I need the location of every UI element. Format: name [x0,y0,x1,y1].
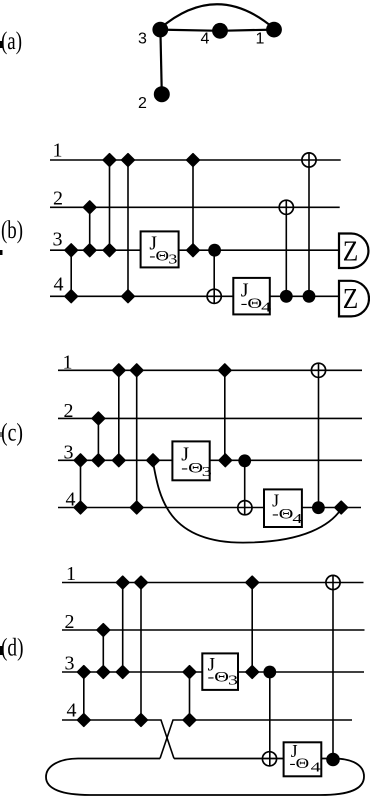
gate box J-theta3 d [202,653,238,690]
svg-text:1: 1 [66,563,76,585]
gate box J-theta4 b [233,278,269,315]
svg-text:3: 3 [168,253,177,268]
wire vertical c w1-w3 [118,370,120,460]
gate box J-theta4 d [284,742,322,776]
svg-text:-Θ: -Θ [241,296,263,312]
control dot b w3 [208,244,221,257]
diamond b w4 a [65,290,78,303]
wire vertical b w1-w4 cnot [308,153,310,297]
wire d1 [62,582,364,584]
svg-text:(b): (b) [1,217,23,244]
diamond b w3 a [65,244,78,257]
svg-text:2: 2 [64,400,74,422]
diamond c w4 a [74,501,87,514]
measurement Z b w4 [339,281,369,317]
wire vertical d w1-w3 third [251,583,253,673]
diamond b w4 b [122,290,135,303]
diamond d w1 c [246,576,259,589]
diamond c w1 a [113,364,126,377]
svg-text:Z: Z [343,283,359,315]
loopback stadium d [46,759,364,796]
control dot d loop [326,753,340,767]
svg-text:-Θ: -Θ [272,507,294,523]
svg-text:4: 4 [67,699,77,721]
diamond c w3 a [74,454,87,467]
wire c2 [58,417,362,419]
svg-text:4: 4 [261,301,271,316]
diamond d w3 e [246,666,259,679]
svg-text:-Θ: -Θ [149,249,169,265]
wire vertical d w1-w3 [122,583,124,673]
diamond b w3 b [83,244,96,257]
diamond d w3 b [97,666,110,679]
wire vertical b w1-w3 [109,160,111,250]
control dot d w3 [263,666,276,679]
gate box J-theta3 c [172,441,209,480]
wire c1 [58,369,362,371]
graph edge 4-1 [220,30,274,31]
svg-text:-Θ: -Θ [208,669,230,685]
diamond c w3 d loopstart [147,454,160,467]
wire vertical d w1-w4 [140,583,142,721]
diamond c w1 c [219,364,232,377]
edge artifact mark c [0,432,2,437]
svg-text:(c): (c) [1,420,23,447]
diamond c w3 e [219,454,232,467]
svg-text:2: 2 [65,611,75,633]
wire vertical b w2-w3 [89,207,91,250]
wire vertical b w1-w3 second [192,160,194,250]
svg-text:4: 4 [201,30,210,47]
wire c3 [58,459,362,461]
svg-text:2: 2 [138,95,147,112]
svg-text:1: 1 [53,139,63,161]
edge artifact mark a [0,41,3,48]
wire vertical b w3-w4 cnot [213,250,215,303]
wire d4 left [62,720,174,759]
wire vertical d w3-w4 [83,672,85,720]
svg-text:1: 1 [63,352,73,374]
cnot target b w4 [207,289,221,303]
cnot target d w1 [326,575,340,589]
diamond d w3 c [116,666,129,679]
wire b1 [50,159,341,161]
wire vertical c w3-w4 [80,460,82,507]
svg-text:3: 3 [202,465,212,480]
diamond c w1 b [130,364,143,377]
diamond b w1 a [103,154,116,167]
diamond d w3 a [78,666,91,679]
wire d3 [62,671,364,673]
cnot target b w2 [279,200,293,214]
edge artifact mark d [0,646,3,655]
svg-text:1: 1 [256,30,265,47]
graph node 4 [212,23,228,39]
control dot b w4 b [303,290,316,303]
svg-text:4: 4 [311,761,321,776]
diamond c w2 [92,412,105,425]
graph node 1 [266,22,282,38]
wire vertical d w2-w3 [102,630,104,672]
svg-text:3: 3 [53,229,63,251]
diamond d w1 b [135,576,148,589]
wire b2 [50,206,340,208]
wire d2 [62,629,365,631]
svg-text:-Θ: -Θ [289,756,309,772]
wire vertical b w1-w4 [127,160,129,296]
wire b3 [50,249,340,251]
diamond d w1 a [116,576,129,589]
diamond d w4 b [135,714,148,727]
wire vertical b w3-w4 [70,250,72,296]
diamond c w4 loopend [335,501,348,514]
diamond d w3 d [183,666,196,679]
wire vertical c w1-w4 [136,370,138,507]
svg-text:(a): (a) [1,28,22,55]
measurement Z b w3 [339,234,368,269]
gate box J-theta4 c [264,489,302,527]
graph edge 3-1 arc [160,4,274,28]
diamond d w4 c [183,714,196,727]
cnot target c w1 [311,363,325,377]
svg-text:3: 3 [64,442,74,464]
svg-text:3: 3 [138,30,147,47]
cnot target c w4 [238,501,252,515]
svg-text:3: 3 [228,674,238,689]
wire d4 right with crossing [160,720,352,759]
loopback curve c w3-w4 [153,462,341,543]
diamond b w3 c [103,244,116,257]
control dot c w3 [238,454,251,467]
edge artifact mark b [0,250,3,255]
wire vertical c w1-w4 cnot [318,363,320,508]
cnot target b w1 [302,153,316,167]
diamond b w1 c [187,154,200,167]
svg-text:(d): (d) [1,635,24,662]
diamond b w3 d [187,244,200,257]
diamond b w2 [83,201,96,214]
graph edge 3-2 [160,30,161,95]
diamond b w1 b [122,154,135,167]
diamond c w3 c [113,454,126,467]
svg-text:2: 2 [53,187,63,209]
diamond d w2 [97,624,110,637]
svg-text:4: 4 [292,512,302,527]
graph edge 3-4 [160,30,220,31]
wire vertical b w2-w4 cnot [285,200,287,296]
diamond c w3 b [92,454,105,467]
graph node 2 [154,86,170,102]
wire c4 [58,507,361,509]
wire vertical d w3-loop cnot [269,672,271,766]
svg-text:3: 3 [65,652,75,674]
svg-text:4: 4 [54,273,64,295]
wire vertical d w1-loop cnot [332,575,334,759]
wire vertical d w3-w4 second [189,672,191,720]
gate box J-theta3 b [141,231,179,267]
wire vertical c w1-w3 second [224,370,226,460]
graph node 3 [152,22,168,38]
control dot c w4 [312,501,325,514]
control dot b w4 a [280,290,293,303]
svg-text:-Θ: -Θ [181,460,203,476]
diamond d w4 a [78,714,91,727]
diamond c w4 b [130,501,143,514]
svg-text:Z: Z [343,236,359,268]
wire b4 [50,295,340,297]
cnot target d loop [262,752,276,766]
wire vertical c w3-w4 cnot [244,460,246,515]
wire vertical c w2-w3 [97,418,99,460]
